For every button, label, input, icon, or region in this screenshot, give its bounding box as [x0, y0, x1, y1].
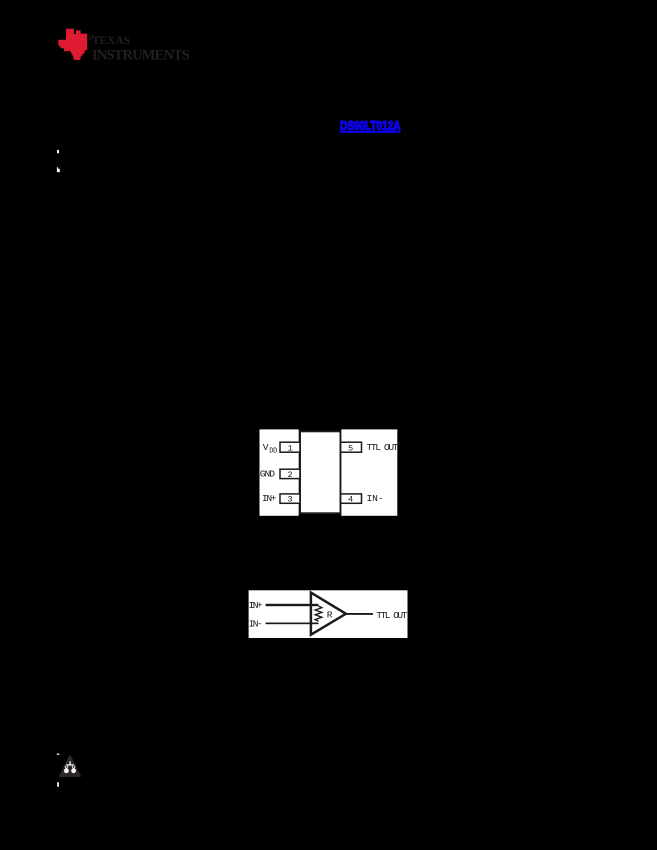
svg-text:5: 5: [348, 443, 353, 453]
legal scales triangle icon: [60, 756, 80, 776]
svg-text:IN+: IN+: [262, 493, 277, 504]
figure white background right: [341, 429, 397, 515]
wire TTL OUT: [346, 613, 373, 615]
svg-text:GND: GND: [260, 468, 275, 479]
wire IN+: [266, 604, 319, 606]
svg-text:V: V: [263, 442, 269, 453]
pin 5 box: [341, 442, 362, 452]
wire IN-: [266, 623, 319, 625]
package body U1: [300, 431, 340, 513]
resistor R zigzag: [315, 606, 322, 621]
svg-text:TEXAS: TEXAS: [92, 35, 130, 47]
figure white background left: [260, 429, 299, 515]
white glyph fragment (features bullet 1): [57, 150, 59, 153]
figure white background: [249, 590, 408, 638]
svg-text:DD: DD: [269, 448, 277, 456]
white glyph fragment below icon: [57, 782, 59, 787]
white glyph fragment above icon: [57, 754, 60, 755]
pin 3 box: [280, 494, 301, 503]
svg-text:2: 2: [288, 470, 293, 480]
svg-text:IN+: IN+: [249, 600, 263, 611]
svg-text:4: 4: [348, 495, 353, 505]
registered mark: [90, 35, 94, 39]
svg-text:INSTRUMENTS: INSTRUMENTS: [92, 48, 190, 64]
svg-text:1: 1: [288, 443, 293, 453]
svg-text:TTL OUT: TTL OUT: [367, 442, 399, 453]
svg-text:DS90LT012A: DS90LT012A: [340, 118, 401, 133]
svg-text:TTL OUT: TTL OUT: [376, 610, 407, 621]
svg-text:IN-: IN-: [367, 493, 384, 504]
pin 1 box: [280, 442, 301, 452]
svg-text:IN-: IN-: [249, 618, 263, 629]
pin 2 box: [280, 469, 301, 478]
TI logo Texas-map mark: [58, 29, 87, 60]
pin 4 box: [341, 494, 362, 503]
svg-text:3: 3: [288, 495, 293, 505]
svg-text:R: R: [327, 610, 333, 621]
comparator U1 triangle: [311, 593, 346, 635]
white glyph fragment (features bullet 2): [57, 167, 60, 172]
